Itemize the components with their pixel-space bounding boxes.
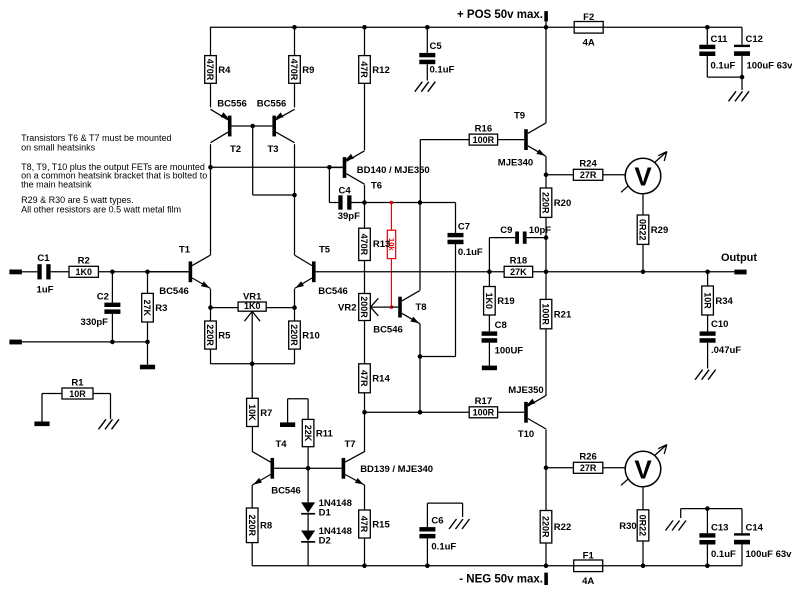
- svg-text:C11: C11: [711, 34, 729, 45]
- svg-text:R4: R4: [218, 65, 231, 76]
- svg-text:R26: R26: [579, 452, 596, 463]
- svg-text:F2: F2: [583, 12, 594, 23]
- svg-text:R18: R18: [510, 256, 527, 267]
- svg-text:BC556: BC556: [257, 98, 287, 109]
- svg-text:10R: 10R: [702, 292, 712, 309]
- svg-text:R20: R20: [554, 198, 571, 209]
- svg-text:4A: 4A: [583, 38, 595, 49]
- svg-text:MJE350: MJE350: [508, 385, 543, 396]
- svg-text:V: V: [634, 454, 652, 484]
- svg-text:.047uF: .047uF: [711, 345, 741, 356]
- svg-text:T4: T4: [275, 439, 287, 450]
- svg-text:100R: 100R: [473, 135, 495, 145]
- svg-text:100uF 63v: 100uF 63v: [747, 60, 792, 71]
- svg-text:R11: R11: [316, 428, 334, 439]
- svg-text:0.1uF: 0.1uF: [458, 247, 483, 258]
- svg-text:4A: 4A: [582, 576, 594, 587]
- svg-text:C12: C12: [746, 34, 763, 45]
- svg-text:0.1uF: 0.1uF: [430, 64, 455, 75]
- svg-text:R21: R21: [554, 310, 572, 321]
- svg-text:100R: 100R: [541, 303, 551, 325]
- svg-text:0.1uF: 0.1uF: [711, 549, 736, 560]
- svg-text:22K: 22K: [303, 425, 313, 442]
- svg-text:R7: R7: [260, 408, 272, 419]
- svg-text:- NEG 50v max.: - NEG 50v max.: [459, 574, 543, 586]
- svg-text:Output: Output: [721, 252, 757, 264]
- svg-text:R24: R24: [579, 159, 597, 170]
- svg-text:All other resistors are 0.5 wa: All other resistors are 0.5 watt metal f…: [21, 205, 181, 215]
- svg-text:+ POS 50v max.: + POS 50v max.: [457, 9, 543, 21]
- svg-text:10pF: 10pF: [529, 225, 551, 236]
- svg-text:BD140 / MJE350: BD140 / MJE350: [357, 165, 430, 176]
- svg-text:10R: 10R: [69, 389, 86, 399]
- svg-text:39pF: 39pF: [338, 211, 360, 222]
- svg-text:BC546: BC546: [373, 324, 403, 335]
- svg-text:R2: R2: [78, 256, 90, 267]
- svg-text:R12: R12: [372, 65, 389, 76]
- svg-text:0R22: 0R22: [638, 515, 648, 537]
- svg-text:0.1uF: 0.1uF: [711, 60, 736, 71]
- svg-text:BC546: BC546: [318, 286, 348, 297]
- svg-text:T9: T9: [514, 111, 525, 122]
- svg-text:VR1: VR1: [243, 292, 262, 303]
- svg-text:220R: 220R: [289, 324, 299, 346]
- svg-text:220R: 220R: [247, 515, 257, 537]
- svg-text:C9: C9: [500, 225, 512, 236]
- svg-text:R30: R30: [619, 521, 636, 532]
- svg-text:R14: R14: [372, 374, 390, 385]
- svg-text:R5: R5: [218, 330, 231, 341]
- svg-text:220R: 220R: [541, 192, 551, 214]
- svg-text:BC546: BC546: [159, 286, 189, 297]
- svg-text:R13: R13: [373, 239, 390, 250]
- svg-text:C5: C5: [430, 41, 443, 52]
- svg-text:C8: C8: [495, 320, 507, 331]
- svg-text:BC546: BC546: [271, 485, 301, 496]
- svg-text:D2: D2: [319, 536, 331, 547]
- svg-text:the main heatsink: the main heatsink: [21, 180, 92, 190]
- svg-text:T7: T7: [344, 439, 355, 450]
- svg-text:R15: R15: [372, 519, 390, 530]
- svg-text:VR2: VR2: [338, 303, 356, 314]
- svg-text:MJE340: MJE340: [498, 157, 533, 168]
- svg-text:10K: 10K: [247, 404, 257, 421]
- svg-text:C10: C10: [711, 319, 728, 330]
- svg-text:330pF: 330pF: [81, 317, 109, 328]
- svg-text:D1: D1: [319, 508, 332, 519]
- svg-text:T6: T6: [371, 180, 382, 191]
- svg-text:C2: C2: [97, 292, 109, 303]
- svg-text:V: V: [634, 161, 652, 191]
- svg-text:R9: R9: [302, 65, 314, 76]
- svg-text:C1: C1: [37, 253, 50, 264]
- svg-text:R3: R3: [155, 303, 167, 314]
- svg-text:T10: T10: [518, 429, 534, 440]
- svg-text:27K: 27K: [142, 299, 152, 316]
- svg-text:R1: R1: [71, 377, 84, 388]
- svg-text:R34: R34: [715, 296, 733, 307]
- svg-text:R22: R22: [554, 522, 571, 533]
- svg-text:R16: R16: [475, 123, 492, 134]
- svg-text:C7: C7: [458, 221, 470, 232]
- svg-text:R29: R29: [651, 225, 668, 236]
- svg-text:T3: T3: [267, 144, 278, 155]
- svg-text:R19: R19: [497, 296, 514, 307]
- svg-text:C14: C14: [746, 523, 764, 534]
- svg-text:27R: 27R: [580, 170, 597, 180]
- svg-text:R8: R8: [260, 521, 272, 532]
- svg-text:220R: 220R: [205, 324, 215, 346]
- svg-text:470R: 470R: [205, 59, 215, 81]
- svg-text:C6: C6: [431, 516, 443, 527]
- svg-text:1uF: 1uF: [37, 284, 54, 295]
- svg-text:F1: F1: [583, 550, 595, 561]
- svg-text:on small heatsinks: on small heatsinks: [21, 143, 96, 153]
- svg-text:C4: C4: [339, 185, 352, 196]
- svg-text:BC556: BC556: [217, 98, 247, 109]
- svg-text:0R22: 0R22: [638, 219, 648, 241]
- svg-text:470R: 470R: [359, 234, 369, 256]
- svg-text:1K0: 1K0: [484, 292, 494, 309]
- svg-text:100uF 63v: 100uF 63v: [746, 549, 792, 560]
- svg-text:T2: T2: [230, 144, 241, 155]
- svg-text:47R: 47R: [359, 516, 369, 533]
- svg-text:27R: 27R: [580, 463, 597, 473]
- svg-text:200R: 200R: [359, 296, 369, 318]
- svg-text:220R: 220R: [541, 516, 551, 538]
- svg-text:T5: T5: [319, 244, 331, 255]
- svg-text:100UF: 100UF: [495, 346, 524, 357]
- svg-text:T8: T8: [415, 302, 426, 313]
- svg-text:0.1uF: 0.1uF: [431, 542, 456, 553]
- svg-text:T1: T1: [179, 244, 191, 255]
- svg-text:100R: 100R: [473, 408, 495, 418]
- svg-text:1K0: 1K0: [75, 267, 92, 277]
- svg-text:27K: 27K: [510, 267, 527, 277]
- svg-text:470R: 470R: [289, 59, 299, 81]
- svg-text:C13: C13: [711, 523, 728, 534]
- svg-text:BD139 / MJE340: BD139 / MJE340: [360, 464, 433, 475]
- svg-text:R17: R17: [475, 396, 492, 407]
- svg-text:47R: 47R: [359, 370, 369, 387]
- svg-text:R10: R10: [302, 330, 319, 341]
- svg-text:47R: 47R: [359, 61, 369, 78]
